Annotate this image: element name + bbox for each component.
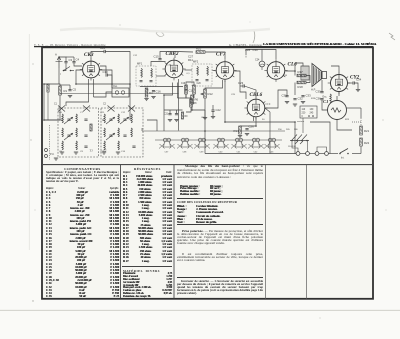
header right bold title <box>263 42 376 46</box>
svg-text:C5: C5 <box>73 88 77 92</box>
rule above inverseur <box>177 277 263 278</box>
svg-text:280: 280 <box>294 129 298 131</box>
wire output net <box>295 63 303 66</box>
wire antenna down <box>44 68 59 84</box>
svg-text:0,1: 0,1 <box>187 73 191 75</box>
wire CF7 plate <box>235 71 247 99</box>
wire CBF2 cath <box>164 83 173 96</box>
svg-text:C4: C4 <box>76 58 80 62</box>
svg-text:110: 110 <box>302 109 306 111</box>
svg-text:R6: R6 <box>195 98 199 102</box>
svg-text:C7: C7 <box>80 112 84 114</box>
tube CL6 <box>264 59 297 82</box>
svg-text:Exc.: Exc. <box>323 96 328 99</box>
grounds R14 <box>238 134 249 138</box>
svg-text:C21: C21 <box>164 114 169 116</box>
output transformer <box>301 66 309 80</box>
tube CF7 <box>213 52 236 82</box>
resistor R9 <box>181 112 188 119</box>
speckle dots <box>30 22 386 319</box>
mains switch <box>339 149 349 160</box>
materiel divers table <box>123 273 172 298</box>
padder C41 <box>231 138 247 153</box>
voltage taps labels <box>278 129 298 131</box>
inverseur paragraph <box>177 280 263 295</box>
vertical rail mid <box>178 79 180 131</box>
svg-text:C1: C1 <box>323 99 328 104</box>
pencil mark 1 <box>156 32 164 37</box>
resistances table <box>123 175 172 263</box>
paper tone inside frame <box>42 47 373 299</box>
condensateurs table <box>46 191 119 299</box>
svg-text:C26: C26 <box>249 125 255 129</box>
capacitor C16 <box>152 90 161 94</box>
terminal 3 <box>315 152 319 156</box>
resistor R1 <box>59 86 68 95</box>
svg-text:R16: R16 <box>283 75 288 77</box>
svg-text:265: 265 <box>286 129 290 131</box>
capacitor C33 <box>301 94 311 98</box>
wire CBL6 grid <box>244 86 256 97</box>
wire lamp left <box>322 100 328 110</box>
svg-text:C6: C6 <box>59 112 63 114</box>
AVC capacitor C20 <box>193 83 202 94</box>
labels C28 C30 <box>245 48 258 52</box>
oscillator block <box>112 86 129 97</box>
tuning gang section 1 <box>54 104 65 112</box>
svg-text:C25: C25 <box>231 94 236 96</box>
svg-text:R23: R23 <box>345 119 350 121</box>
ground C34 <box>354 83 358 89</box>
wire CBL6 plate <box>266 90 288 108</box>
svg-text:T1: T1 <box>90 149 94 153</box>
svg-text:C37: C37 <box>165 152 170 154</box>
svg-text:I: I <box>60 73 61 76</box>
svg-text:C33: C33 <box>306 94 312 98</box>
padder C42 <box>248 138 264 153</box>
svg-text:R22: R22 <box>364 141 370 145</box>
svg-text:C23: C23 <box>238 81 244 85</box>
svg-text:R9: R9 <box>185 116 189 118</box>
svg-text:C19: C19 <box>181 83 186 85</box>
prise polarisee paragraph <box>177 230 263 245</box>
svg-text:50: 50 <box>262 119 265 121</box>
capacitor C34 <box>353 78 362 85</box>
svg-text:C39: C39 <box>200 152 205 154</box>
resistor R8 <box>190 99 197 107</box>
svg-text:C9: C9 <box>80 151 84 153</box>
svg-text:C22: C22 <box>216 108 222 112</box>
capacitor C36 <box>316 97 324 101</box>
svg-text:C18: C18 <box>189 89 195 93</box>
svg-text:130: 130 <box>310 109 315 111</box>
svg-text:C36: C36 <box>316 97 322 101</box>
dotted link lamp <box>360 118 362 126</box>
condensateurs intro <box>46 171 119 184</box>
page bottom edge artifact <box>0 309 400 311</box>
wire screen rail <box>225 81 295 123</box>
svg-text:C2: C2 <box>103 104 107 106</box>
rule below code couleurs <box>177 224 263 225</box>
wire grid bus right <box>175 51 193 54</box>
wire CY2 plate <box>331 66 339 72</box>
svg-text:0: 0 <box>302 116 304 118</box>
svg-text:C20: C20 <box>197 83 202 85</box>
speaker <box>311 64 327 92</box>
junction dots <box>129 83 257 127</box>
svg-text:R12: R12 <box>208 92 214 96</box>
materiel divers header <box>123 269 172 273</box>
wire left rail <box>43 84 45 120</box>
header rule <box>34 46 373 48</box>
svg-text:R8: R8 <box>194 103 198 105</box>
svg-text:MF1: MF1 <box>137 62 143 66</box>
code couleurs header <box>177 200 263 204</box>
header left text <box>34 43 106 47</box>
wire CY2 cathode <box>338 92 340 96</box>
svg-text:CK3: CK3 <box>84 52 94 58</box>
svg-text:T2: T2 <box>103 149 107 153</box>
wire lamp bottom <box>337 120 352 131</box>
materiel divers rule <box>122 266 172 267</box>
wire CK3 top cap <box>91 52 104 60</box>
padder C38 <box>177 138 193 153</box>
wire CL6 top <box>246 50 276 60</box>
tap selector arrows <box>288 135 309 149</box>
wire grid bus <box>105 52 130 89</box>
capacitor C25 <box>174 114 178 122</box>
svg-text:P.U.: P.U. <box>50 153 55 156</box>
capacitor C32 <box>293 97 303 101</box>
condensateurs column header <box>46 167 119 171</box>
svg-text:R10: R10 <box>196 47 202 51</box>
svg-text:C1: C1 <box>54 104 58 106</box>
svg-text:secteur: secteur <box>297 120 304 123</box>
wire HT rail <box>163 95 165 131</box>
svg-text:MF2: MF2 <box>193 60 199 64</box>
haut-parleur paragraph <box>177 165 263 179</box>
label C27 <box>188 55 194 63</box>
wire CL6 plate <box>286 63 296 71</box>
tube CBF2 <box>162 51 185 80</box>
PU jacks <box>45 149 55 158</box>
column divider 4 <box>306 165 308 299</box>
resistor R14 <box>234 126 242 134</box>
column divider 3 <box>265 165 267 299</box>
capacitor C3 <box>64 58 72 63</box>
page frame <box>42 47 373 298</box>
svg-text:C12: C12 <box>121 112 126 114</box>
terminal 2 <box>306 152 310 156</box>
wire bus under CK3 <box>76 83 130 85</box>
svg-text:C11: C11 <box>101 112 106 114</box>
svg-text:R17: R17 <box>298 70 304 74</box>
svg-text:C12: C12 <box>133 55 138 57</box>
capacitor C4 <box>72 58 79 63</box>
coil box T1 <box>58 108 99 157</box>
ground antenna <box>68 96 72 98</box>
wire padder bus <box>155 139 282 141</box>
capacitor C18 <box>184 89 194 93</box>
pencil mark 3 <box>389 33 395 40</box>
recommandation paragraph <box>177 253 263 262</box>
tube CK3 <box>80 52 102 81</box>
AVC capacitor C19 <box>181 83 187 94</box>
header middle text <box>229 43 263 47</box>
capacitor C10 <box>100 46 106 53</box>
svg-text:CL6: CL6 <box>288 62 298 68</box>
resistances column header <box>123 167 172 171</box>
svg-text:C35: C35 <box>316 90 322 94</box>
capacitor C21 <box>164 114 172 122</box>
pencil mark 2 <box>253 31 255 43</box>
wire AVC bus long <box>60 93 179 95</box>
capacitor C26 <box>245 125 254 130</box>
resistor R6 <box>191 95 199 104</box>
ground CBF2 <box>144 97 155 101</box>
tuning gang section 3 <box>103 104 115 112</box>
tube CBL6 <box>244 92 267 119</box>
capacitor C5 <box>68 88 76 92</box>
resistor R10 <box>196 47 205 54</box>
wire detector <box>178 94 187 99</box>
code couleurs list <box>177 205 259 225</box>
wire right riser <box>360 146 362 154</box>
svg-text:C24: C24 <box>255 59 260 62</box>
capacitor C35 <box>316 90 324 94</box>
wire band bus <box>142 130 285 132</box>
svg-text:C14: C14 <box>121 151 126 153</box>
svg-text:C13: C13 <box>103 70 109 74</box>
antenna trimmer left <box>47 84 50 160</box>
column divider 1 <box>120 165 122 299</box>
svg-text:220: 220 <box>302 113 307 115</box>
svg-text:C30: C30 <box>253 48 259 52</box>
IF transformer MF1 <box>136 62 156 87</box>
capacitor C23 <box>238 81 244 88</box>
svg-text:R1: R1 <box>64 89 68 93</box>
wire selector drops <box>302 118 304 133</box>
svg-text:Int.: Int. <box>341 157 345 160</box>
coil box T2 <box>101 108 144 157</box>
potentiometer R12 volume <box>201 89 214 98</box>
resistor R4 <box>145 88 153 97</box>
ground left <box>54 158 58 160</box>
padder C40 <box>213 138 229 153</box>
svg-text:C10: C10 <box>100 46 106 50</box>
resistor R22 <box>360 138 370 146</box>
switch antenna <box>60 67 71 77</box>
svg-text:250: 250 <box>278 129 282 131</box>
padder C37 <box>159 138 175 153</box>
svg-text:C16: C16 <box>156 90 162 94</box>
svg-text:R21: R21 <box>364 129 370 133</box>
svg-text:C38: C38 <box>183 152 188 154</box>
left page edge artifact <box>28 34 30 250</box>
grounds cluster <box>285 102 305 107</box>
svg-text:C3: C3 <box>69 58 73 62</box>
ground pot <box>203 117 215 120</box>
tube CY2 <box>328 72 360 94</box>
svg-text:C16: C16 <box>167 65 172 67</box>
padder C39 <box>194 138 210 153</box>
svg-text:CBF2: CBF2 <box>166 51 179 57</box>
wire CBF2 top cap <box>160 52 175 59</box>
svg-text:245: 245 <box>310 113 315 115</box>
svg-text:C34: C34 <box>356 78 362 82</box>
terminal 4 <box>325 152 329 156</box>
bottom section top rule <box>42 164 373 166</box>
resistor R18 <box>297 81 306 89</box>
resistances table head <box>123 171 172 174</box>
haut-parleur list <box>180 185 260 197</box>
smudge top <box>60 28 270 32</box>
wire CF7 cathode <box>205 80 223 89</box>
filter choke <box>323 94 332 103</box>
wire bottom bus <box>205 153 296 155</box>
antenna input <box>55 53 63 69</box>
column divider 2 <box>173 165 175 299</box>
trimmer C24 <box>255 59 265 71</box>
wire osc couple <box>94 92 113 97</box>
voltage selector <box>297 106 317 123</box>
ballast lamp C1 <box>323 96 347 120</box>
condensateurs table head <box>46 187 119 190</box>
capacitor C22 <box>211 108 221 112</box>
tuning gang section 2 <box>83 106 90 112</box>
wire CBL6 cathode <box>240 118 256 127</box>
IF transformer MF2 <box>192 60 212 87</box>
capacitor C13b <box>103 70 109 77</box>
wire antenna caps <box>59 57 66 62</box>
wire mid cluster <box>169 110 171 114</box>
resistor R21 <box>360 126 370 135</box>
rule above code couleurs <box>177 198 263 199</box>
svg-text:C31: C31 <box>282 94 288 98</box>
wire AVC <box>140 86 183 88</box>
tuning gang section 4 <box>128 106 135 112</box>
wire CK3 pins <box>76 70 82 84</box>
wire gang link <box>129 84 131 120</box>
capacitor C31 <box>282 94 289 98</box>
svg-text:A: A <box>55 53 57 57</box>
padder C43 <box>264 138 280 153</box>
svg-text:CF7: CF7 <box>216 52 226 58</box>
svg-text:Osc.: Osc. <box>113 86 118 88</box>
terminal 1 <box>296 152 300 156</box>
capacitor C15 <box>154 55 162 60</box>
wire MF1 CBF2 <box>151 62 166 67</box>
scattered labels <box>133 55 350 121</box>
svg-text:R18: R18 <box>298 85 304 89</box>
wire CBF2 out <box>185 69 193 71</box>
svg-text:C15: C15 <box>154 55 160 59</box>
resistor R17 <box>297 70 306 77</box>
